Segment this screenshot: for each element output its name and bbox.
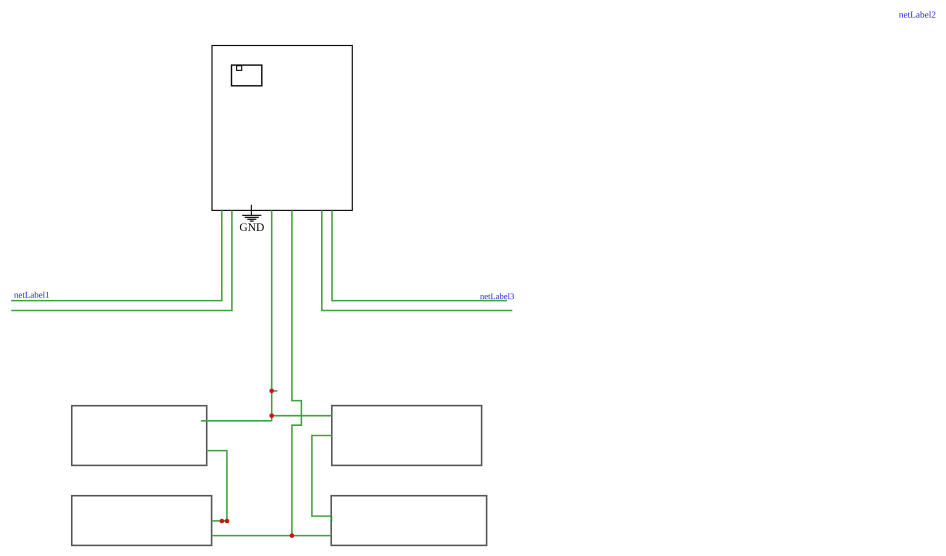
inner logo notch square <box>237 66 242 71</box>
net label netLabel2 <box>899 11 935 18</box>
wire: block1 right pin to node 2 <box>201 420 272 422</box>
main IC block <box>212 46 352 211</box>
wire: block3 right pin to node 3 <box>212 520 227 522</box>
junction node 1 <box>269 389 274 394</box>
net label netLabel1 <box>14 292 49 298</box>
wire: bottom bus block3 to block4 <box>212 535 332 537</box>
wire: block4 pin stub <box>330 516 332 521</box>
wire: pin C long vertical <box>271 210 273 420</box>
wire: pin A vertical to netLabel1 rail <box>11 210 222 300</box>
block4 <box>331 496 486 546</box>
junction node 3 dots <box>220 519 225 524</box>
wire: pin F vertical to netLabel3 rail <box>332 210 507 300</box>
ground symbol <box>242 205 261 221</box>
wire: stub at node 1 <box>272 390 278 392</box>
net label netLabel3 <box>480 293 514 299</box>
wire: pin D vertical with jog, down to bottom bus <box>292 210 302 535</box>
block2 <box>332 406 482 466</box>
block3 <box>72 496 212 546</box>
wire: pin B vertical to lower-left rail <box>11 210 232 310</box>
junction node 4 <box>290 533 295 538</box>
inner logo box <box>232 65 262 86</box>
ground label GND <box>240 223 264 231</box>
junction node 2 <box>269 413 274 418</box>
wire: block1 lower pin down to node 3 <box>207 451 227 521</box>
wire: node 2 to block2 left pin <box>272 415 332 417</box>
wire: pin E vertical to lower-right rail <box>322 210 513 310</box>
block1 <box>72 406 207 466</box>
wire: block2 lower pin to block4 upper pin <box>312 436 332 517</box>
